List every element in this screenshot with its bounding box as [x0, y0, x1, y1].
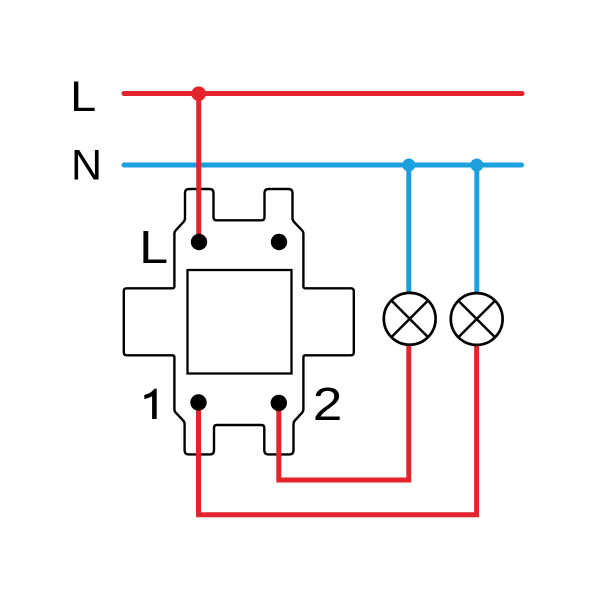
- svg-text:N: N: [71, 142, 102, 190]
- svg-text:2: 2: [313, 378, 343, 430]
- svg-text:L: L: [139, 221, 168, 273]
- svg-text:L: L: [70, 73, 96, 121]
